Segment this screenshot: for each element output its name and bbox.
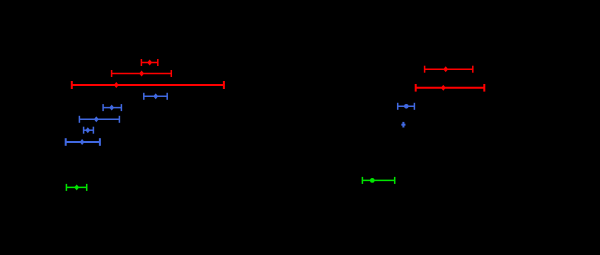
errorbar B red — [112, 70, 172, 77]
errorbar G blue — [84, 127, 94, 134]
errorbar J red right-panel top — [425, 66, 473, 73]
errorbar L blue right-panel circle marker — [398, 103, 415, 110]
errorbar I green left-panel — [66, 184, 86, 191]
errorbar N green right-panel — [362, 177, 394, 184]
errorbar A red left-panel top — [141, 59, 157, 66]
errorbar H blue thick — [66, 138, 100, 146]
errorbar E blue — [103, 104, 121, 111]
marker M blue plus (tiny errorbar with diamond) — [401, 122, 405, 128]
errorbar K red right-panel thick — [416, 84, 485, 92]
errorbar C red wide thick — [72, 81, 224, 89]
errorbar F blue — [79, 116, 119, 123]
errorbar D blue — [144, 93, 167, 100]
